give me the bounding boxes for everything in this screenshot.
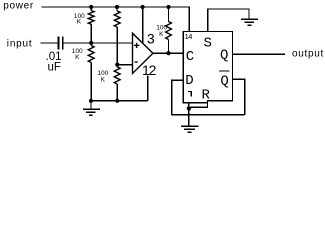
wire D input feedback loop (from bottom rail)	[172, 80, 184, 115]
value label R4 100K	[156, 25, 167, 39]
wire power rail to flip-flop pin 14	[42, 7, 190, 32]
svg-text:C: C	[186, 49, 194, 65]
Qbar overline	[219, 70, 229, 72]
value label R3 100K	[97, 70, 108, 83]
wire left ground rail	[91, 100, 148, 102]
capacitor C1 .01uF plates	[59, 37, 63, 50]
junction ground rail at R2	[89, 99, 93, 103]
resistor R2 100K (input node to ground rail)	[88, 43, 94, 101]
wire R pin stub to ground junction	[188, 103, 190, 106]
svg-text:K: K	[75, 54, 80, 61]
svg-text:3: 3	[147, 30, 155, 46]
flip-flop U2 box	[183, 32, 232, 103]
svg-text:R: R	[201, 87, 210, 103]
wire - node to comparator - input	[117, 64, 132, 66]
wire Q output to output node	[233, 53, 285, 55]
resistor R1 100K (power to input node)	[88, 7, 94, 41]
junction ground rail at R3	[115, 99, 119, 103]
svg-text:uF: uF	[48, 62, 61, 74]
junction on power rail at R1	[89, 5, 93, 9]
edge marker bracket by R	[188, 92, 191, 97]
svg-text:K: K	[159, 31, 164, 38]
resistor divider upper 100K (power to - node)	[114, 7, 120, 63]
svg-text:K: K	[101, 76, 106, 83]
junction comparator output / pull-up	[166, 51, 170, 55]
svg-text:output: output	[292, 49, 324, 60]
plus input marker	[134, 43, 140, 48]
junction R / ground	[187, 106, 191, 110]
wire Qbar output feedback loop	[233, 79, 245, 115]
ground (bottom left)	[83, 102, 100, 115]
svg-text:D: D	[185, 73, 193, 89]
svg-text:K: K	[77, 19, 82, 26]
svg-text:12: 12	[142, 62, 157, 78]
wire bottom feedback rail D to Qbar	[172, 114, 245, 116]
wire ground stem (crosses feedback rail)	[188, 109, 190, 125]
wire capacitor to comparator + input	[63, 42, 132, 44]
svg-text:power: power	[3, 1, 34, 12]
svg-text:Q: Q	[220, 48, 228, 64]
resistor R4 100K pull-up (power to comparator output)	[166, 7, 172, 53]
junction on power rail at pull-up R4	[166, 5, 170, 9]
svg-text:Q: Q	[220, 73, 228, 89]
wire power rail to comparator V+ pin 3	[142, 7, 144, 43]
wire input to capacitor	[41, 42, 58, 44]
svg-text:input: input	[7, 38, 33, 49]
junction input node	[89, 41, 93, 45]
op-amp comparator U1 triangle	[133, 33, 153, 73]
wire S input to top ground	[208, 9, 249, 32]
wire comparator output to flip-flop C input	[153, 52, 183, 54]
junction on power rail at divider chain	[115, 5, 119, 9]
resistor R3 100K (- node to ground rail)	[114, 66, 120, 101]
wire comparator V- pin 12 to ground rail	[147, 76, 149, 101]
ground (top right, S input)	[241, 19, 258, 25]
svg-text:14: 14	[185, 32, 193, 41]
junction on power rail at comparator pin 3	[141, 5, 145, 9]
svg-text:S: S	[203, 35, 211, 51]
value label R1 100K	[74, 13, 85, 25]
ground (bottom center)	[181, 126, 198, 132]
wire R loop to box bottom	[191, 101, 208, 108]
value label .01 uF	[46, 51, 62, 74]
junction - threshold node	[115, 63, 119, 67]
minus input marker	[135, 61, 138, 63]
value label R2 100K	[72, 48, 83, 61]
